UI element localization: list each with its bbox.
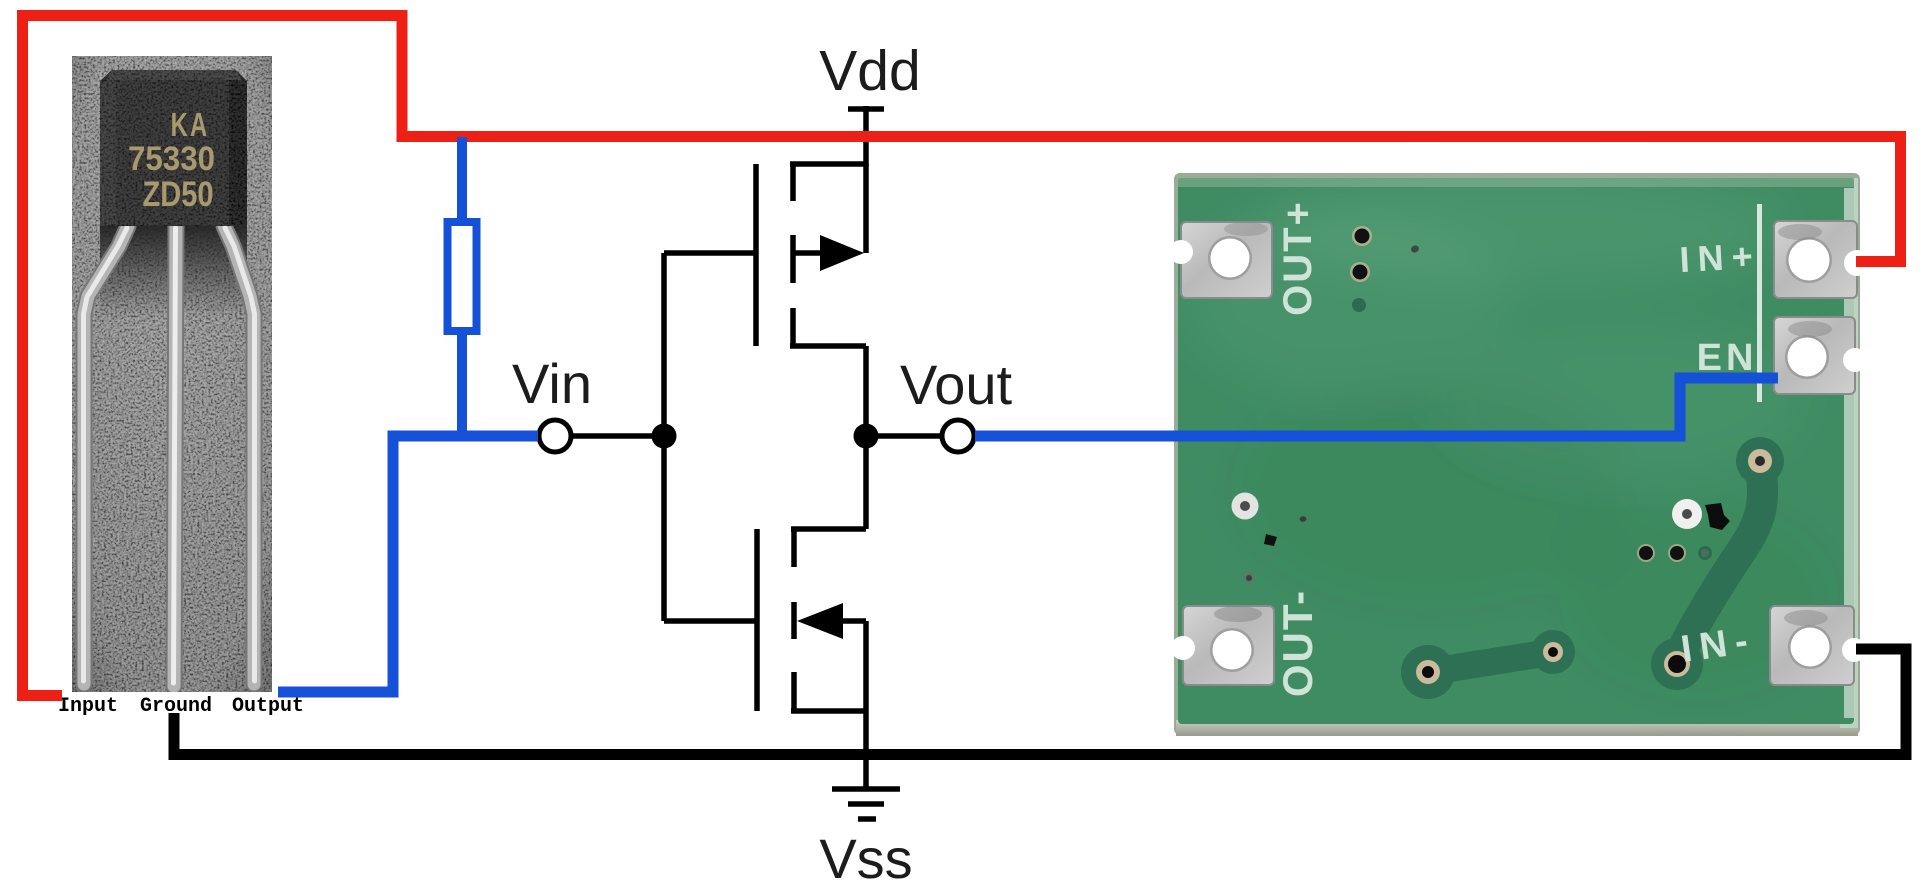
transistor leg right	[224, 226, 255, 684]
black smudge	[1705, 503, 1730, 530]
PMOS Q1 channel bar	[790, 162, 796, 348]
label Output	[232, 695, 304, 718]
wire black ground bus	[174, 649, 1906, 755]
specks left-middle	[1243, 516, 1306, 584]
NMOS Q2 body lead with arrow	[797, 603, 866, 711]
wire blue Vin from transistor output	[278, 436, 538, 692]
transistor photo	[72, 56, 272, 692]
svg-text:Vdd: Vdd	[819, 39, 920, 103]
trace horizontal (bottom center)	[1401, 630, 1575, 699]
via trace right	[1543, 642, 1563, 662]
label OUT-	[1274, 589, 1321, 697]
svg-text:Vss: Vss	[819, 827, 912, 882]
pad OUT-	[1171, 606, 1274, 685]
svg-text:OUT-: OUT-	[1274, 589, 1321, 697]
transistor body	[100, 70, 247, 226]
pad EN	[1774, 317, 1867, 394]
Vdd terminal bar	[848, 106, 884, 166]
label Vin	[512, 352, 592, 415]
label Vout	[900, 353, 1013, 416]
pad IN+	[1774, 221, 1870, 298]
NMOS Q2 gate bar	[754, 529, 760, 711]
pad OUT+	[1169, 222, 1272, 298]
via left-middle	[1232, 493, 1259, 520]
body marking KA	[171, 107, 210, 144]
PMOS Q1 drain lead	[790, 346, 866, 436]
svg-text:Input: Input	[58, 695, 118, 718]
speck top-center	[1410, 244, 1420, 254]
label Input	[58, 695, 118, 718]
silkscreen line right	[1757, 204, 1762, 402]
label Vss	[819, 827, 912, 882]
PMOS Q1 gate bar	[753, 164, 759, 346]
NMOS Q2 source lead	[791, 711, 866, 757]
node Vout junction	[854, 424, 879, 449]
label IN+	[1679, 235, 1762, 280]
pad IN-	[1770, 606, 1866, 685]
wire drains to Vout terminal	[866, 433, 940, 439]
schematic	[512, 39, 1012, 882]
transistor pin labels	[58, 695, 304, 718]
trace big teardrop (right)	[1651, 437, 1784, 690]
svg-text:Vout: Vout	[900, 353, 1013, 416]
via teardrop top	[1748, 449, 1772, 473]
label EN	[1697, 337, 1758, 379]
PCB board substrate	[1178, 175, 1855, 724]
NMOS Q2 gate lead	[664, 436, 757, 621]
resistor R1	[448, 222, 477, 331]
svg-text:75330: 75330	[128, 139, 215, 178]
terminal Vout circle	[942, 420, 974, 452]
PMOS Q1 gate lead	[664, 253, 756, 436]
wire Vin terminal to gates	[573, 433, 664, 439]
svg-text:Output: Output	[232, 695, 304, 718]
NMOS Q2 channel bar	[791, 527, 797, 713]
photo background	[72, 56, 272, 692]
PCB board edge	[1174, 173, 1860, 736]
label Ground	[140, 695, 212, 718]
via teardrop bottom	[1664, 651, 1690, 677]
PMOS Q1 source lead	[790, 164, 866, 253]
wire blue Vout to EN	[975, 378, 1778, 436]
transistor leg left	[84, 226, 129, 684]
body marking ZD50	[142, 174, 213, 213]
PCB module photo	[1169, 173, 1870, 736]
wire blue resistor top leg	[457, 137, 467, 228]
label Vdd	[819, 39, 920, 103]
three dots middle	[1637, 544, 1712, 562]
svg-text:OUT+: OUT+	[1276, 200, 1320, 316]
terminal Vin circle	[539, 420, 571, 452]
label OUT+	[1276, 200, 1320, 316]
transistor leg middle	[174, 226, 177, 686]
svg-text:IN+: IN+	[1679, 235, 1762, 280]
NMOS Q2 drain lead	[791, 436, 866, 529]
via right-middle white	[1672, 499, 1702, 529]
PMOS Q1 body lead with arrow	[793, 235, 864, 271]
body grain	[100, 70, 247, 226]
wire red Vdd supply	[23, 16, 1901, 696]
via trace left	[1416, 660, 1440, 684]
svg-text:Vin: Vin	[512, 352, 592, 415]
svg-text:ZD50: ZD50	[142, 174, 213, 213]
ground symbol	[832, 755, 900, 819]
hole dots top-left	[1350, 226, 1372, 312]
node Vin junction	[652, 424, 677, 449]
label IN-	[1678, 619, 1758, 671]
body marking 75330	[128, 139, 215, 178]
body shadow	[100, 224, 247, 319]
wire blue resistor bottom leg	[457, 331, 467, 436]
